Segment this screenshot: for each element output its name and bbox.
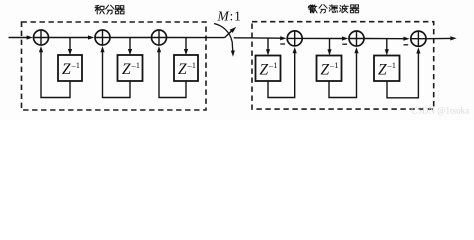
svg-text:Z: Z xyxy=(178,61,187,78)
wire tap down into comb delay Zc1 xyxy=(267,38,269,50)
svg-text:–1: –1 xyxy=(71,60,81,70)
adder C2 xyxy=(348,31,364,46)
svg-text:M:1: M:1 xyxy=(217,8,241,23)
wire tap down into Z2 xyxy=(129,38,131,50)
svg-text:Z: Z xyxy=(122,61,131,78)
wire A1 to A2 xyxy=(49,37,88,39)
adder A2 xyxy=(94,30,110,45)
delay Z3 xyxy=(174,55,198,81)
adder A3 xyxy=(151,30,167,45)
wire A3 to switch xyxy=(167,37,224,39)
input wire xyxy=(9,37,28,39)
delay Z2 xyxy=(118,55,143,81)
wire A2 to A3 xyxy=(111,37,151,39)
comb section dashed box xyxy=(252,22,434,109)
delay Z1 xyxy=(58,55,82,81)
decimation switch M:1 arm xyxy=(225,31,232,38)
delay Zc3 xyxy=(374,56,400,82)
feedback wire Z2 to A2 xyxy=(103,52,131,98)
label 积分器 (integrator) xyxy=(95,5,124,14)
output wire xyxy=(427,37,451,39)
wire tap down into Z1 xyxy=(69,38,71,50)
wire Zc2 to adder C2 xyxy=(329,53,357,97)
wire tap down into comb delay Zc2 xyxy=(329,38,331,50)
wire tap down into Z3 xyxy=(185,38,187,50)
svg-text:–1: –1 xyxy=(131,60,141,70)
wire Zc1 to adder C1 xyxy=(268,53,295,98)
feedback wire Z3 to A3 xyxy=(159,52,186,98)
svg-text:–1: –1 xyxy=(387,60,397,70)
wire switch to comb adder C1 xyxy=(234,37,281,39)
wire tap down into comb delay Zc3 xyxy=(386,39,388,50)
wire Zc3 to adder C3 xyxy=(387,53,418,98)
feedback wire Z1 to A1 xyxy=(41,52,70,98)
svg-text:Z: Z xyxy=(260,61,269,78)
svg-text:–1: –1 xyxy=(268,60,278,70)
svg-text:Z: Z xyxy=(62,61,71,78)
adder A1 xyxy=(33,30,49,45)
svg-text:–1: –1 xyxy=(329,60,339,70)
minus sign at C3 xyxy=(404,44,409,46)
decimation switch rotation arc xyxy=(214,24,233,51)
minus sign at C1 xyxy=(280,43,285,45)
svg-text:CSDN @1tsuka: CSDN @1tsuka xyxy=(411,106,469,116)
minus sign at C2 xyxy=(342,43,347,45)
integrator section dashed box xyxy=(22,22,207,110)
adder C1 xyxy=(287,31,303,46)
adder C3 xyxy=(410,31,427,46)
svg-text:–1: –1 xyxy=(187,60,197,70)
svg-text:Z: Z xyxy=(321,61,330,78)
label 微分滤波器 (comb/differentiator filter) xyxy=(308,5,359,13)
svg-text:Z: Z xyxy=(378,61,387,78)
wire C1 to C2 xyxy=(303,37,342,39)
delay Zc1 xyxy=(256,56,281,82)
wire C2 to C3 xyxy=(365,38,404,40)
delay Zc2 xyxy=(317,56,342,82)
